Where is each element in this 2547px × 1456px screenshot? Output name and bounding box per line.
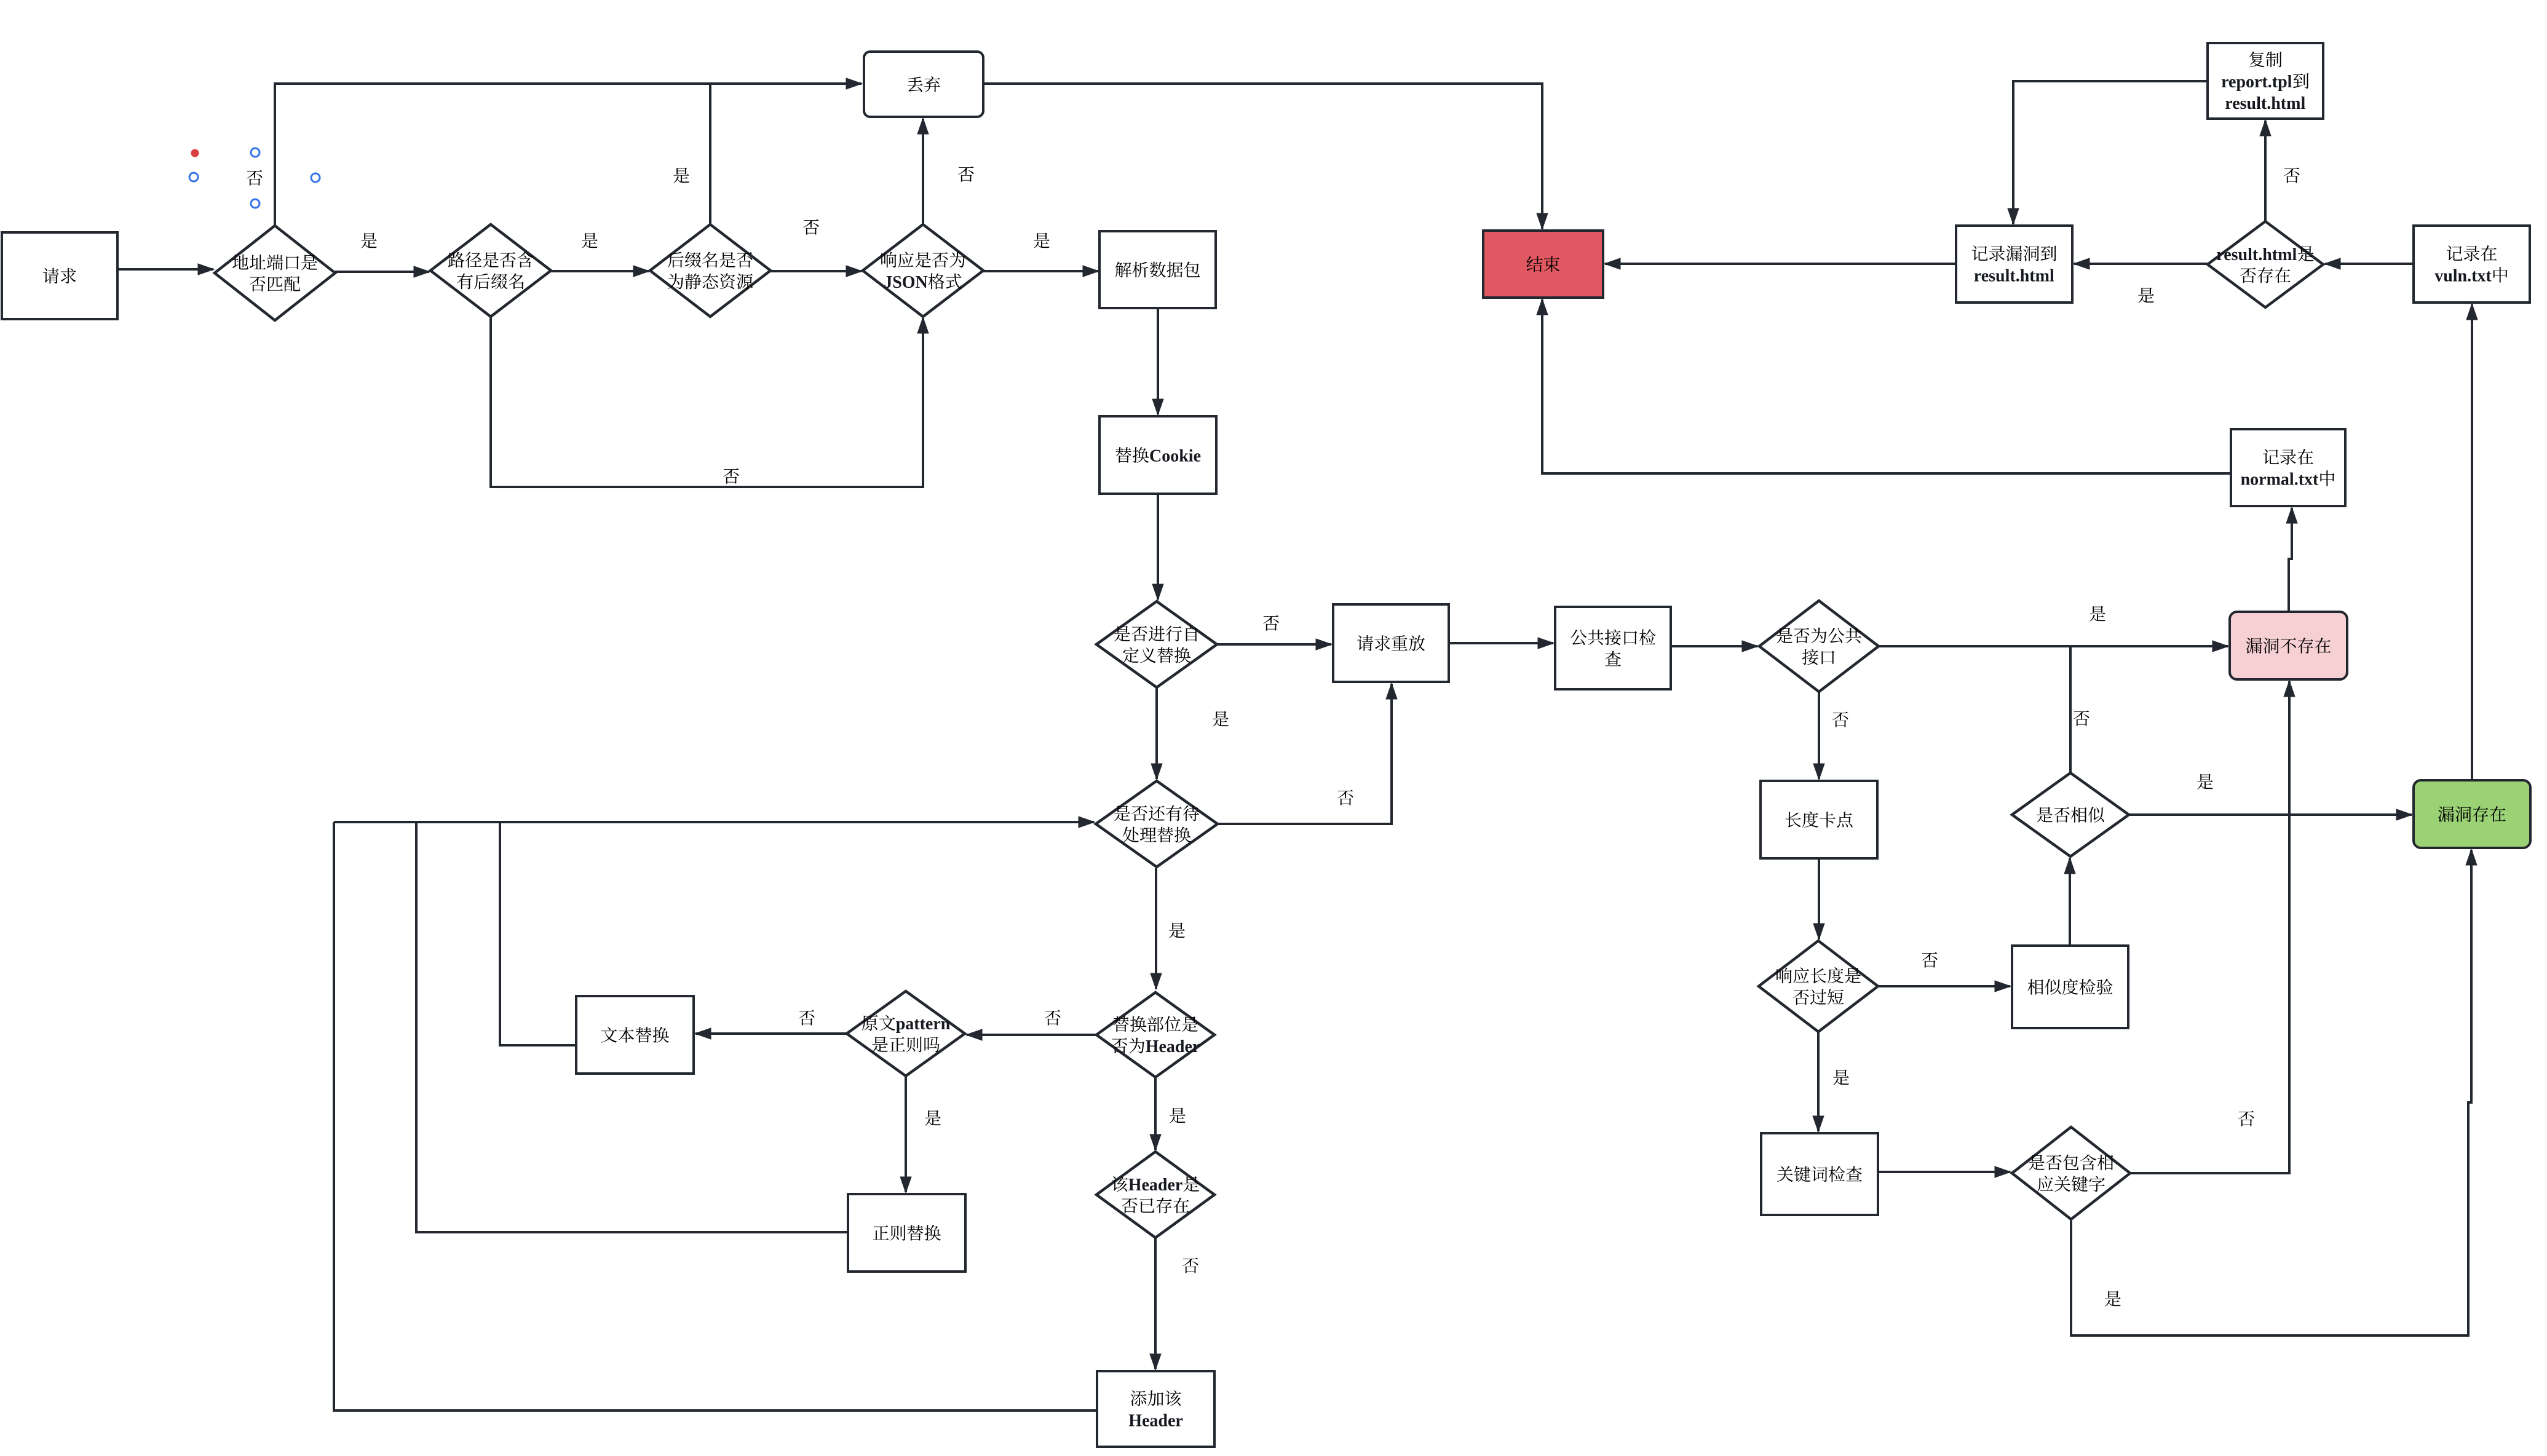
svg-text:result.html: result.html [2216,245,2297,264]
svg-text:Header: Header [1146,1037,1200,1056]
svg-text:Cookie: Cookie [1149,447,1201,466]
svg-text:Header: Header [1128,1176,1183,1195]
svg-text:Header: Header [1128,1412,1183,1431]
svg-text:result.html: result.html [2225,94,2305,113]
svg-text:JSON: JSON [884,273,928,292]
svg-text:normal.txt: normal.txt [2241,470,2319,489]
svg-text:vuln.txt: vuln.txt [2434,267,2492,286]
svg-text:report.tpl: report.tpl [2221,73,2292,92]
svg-text:pattern: pattern [896,1015,951,1034]
svg-text:result.html: result.html [1974,267,2054,286]
